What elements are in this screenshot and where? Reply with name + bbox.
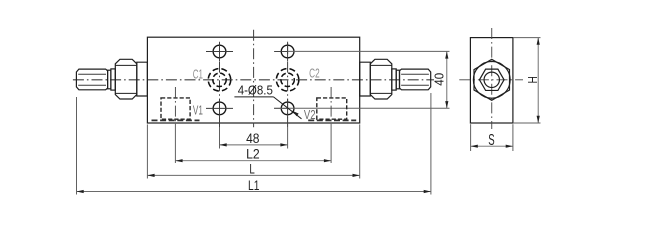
side view vertical center line: [491, 28, 493, 129]
svg-text:V2: V2: [304, 107, 316, 122]
extension line 40 bottom: [274, 107, 450, 109]
dimension L1: [77, 177, 431, 193]
port C1 dashed circles: [208, 69, 231, 92]
cavity V2 center line: [330, 87, 332, 124]
main horizontal center line: [73, 79, 434, 81]
block vertical center line: [253, 30, 255, 128]
svg-text:L1: L1: [248, 177, 260, 193]
main block body: [147, 37, 359, 123]
svg-text:V1: V1: [193, 102, 203, 117]
left hole column center line: [219, 43, 221, 127]
svg-text:C2: C2: [309, 66, 320, 81]
mounting hole bottom-right: [274, 99, 294, 119]
plug bore circle: [484, 72, 499, 87]
svg-text:C1: C1: [193, 66, 203, 81]
mounting hole bottom-left: [206, 99, 233, 119]
right fitting hex nut: [370, 59, 392, 99]
extension lines for L dim: [147, 124, 359, 178]
label V2: [304, 107, 316, 122]
port C2 dashed circles: [276, 69, 299, 92]
svg-text:L: L: [249, 160, 255, 176]
side view body rectangle: [470, 38, 513, 123]
right fitting threaded rod: [400, 69, 431, 90]
right hole column center line: [287, 43, 289, 127]
extension lines for L2 dim: [175, 124, 331, 163]
svg-text:4-Ø8.5: 4-Ø8.5: [238, 82, 273, 97]
label V1: [193, 102, 203, 117]
svg-text:40: 40: [432, 73, 446, 86]
left fitting hex nut: [115, 59, 137, 99]
extension lines for 48 dim: [220, 127, 288, 149]
dimension S: [471, 132, 513, 149]
dimension 40: [432, 51, 448, 108]
plug hex socket: [479, 69, 504, 90]
left fitting collar: [108, 69, 116, 90]
right fitting collar: [392, 69, 400, 90]
dimension 48: [220, 130, 288, 146]
dimension H: [525, 38, 540, 123]
dimension L: [147, 160, 359, 177]
cavity V1 center line: [174, 87, 176, 124]
side view horizontal center line: [459, 79, 523, 81]
extension lines for S dim: [471, 124, 513, 151]
left fitting washer flange: [137, 62, 148, 96]
label C1: [193, 66, 203, 81]
plug hexagon: [474, 59, 510, 100]
svg-text:L2: L2: [246, 146, 260, 162]
svg-text:48: 48: [246, 130, 260, 146]
left fitting threaded rod: [76, 69, 107, 90]
plug boss circle: [473, 61, 510, 98]
callout underline and leader: [234, 97, 301, 119]
cavity V1 bottom hidden line: [152, 119, 200, 121]
mounting hole top-left: [206, 42, 233, 62]
cavity V2 dashed rectangle: [317, 98, 347, 119]
cavity V1 dashed rectangle: [161, 98, 190, 119]
extension line 40 top: [288, 50, 450, 52]
side view bottom edge extension: [513, 122, 541, 124]
extension lines for L1 dim: [77, 93, 431, 195]
mounting hole top-right: [274, 42, 294, 62]
label C2: [309, 66, 320, 81]
svg-text:H: H: [525, 76, 540, 83]
side view top edge extension: [513, 37, 541, 39]
callout 4-diam-8.5 text: [238, 82, 273, 97]
cavity V2 bottom hidden line: [308, 119, 356, 121]
svg-text:S: S: [488, 132, 494, 149]
dimension L2: [175, 146, 331, 163]
right fitting washer flange: [360, 62, 371, 96]
